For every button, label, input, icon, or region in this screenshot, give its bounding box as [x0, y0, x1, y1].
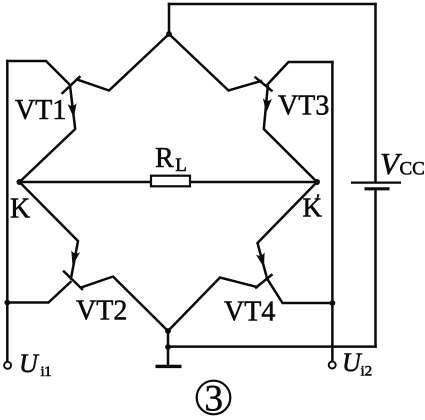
wire bottom return to ground node [168, 345, 376, 348]
battery VCC long plate [351, 182, 401, 184]
wire top supply rail [169, 3, 376, 6]
terminal U_i1 [4, 362, 11, 369]
transistor VT3 emitter arrow [263, 98, 272, 113]
node K [17, 179, 23, 185]
node bridge bottom [165, 328, 171, 334]
node left rail junction [4, 300, 10, 306]
svg-text:3: 3 [205, 379, 224, 420]
wire inner right rail to Ui2 [331, 62, 334, 361]
wire VT2 base lead [81, 277, 168, 332]
transistor VT1 collector lead [7, 61, 70, 85]
transistor VT2 emitter lead [20, 182, 79, 279]
svg-text:i1: i1 [41, 364, 52, 380]
svg-text:K: K [10, 194, 30, 225]
node top junction [166, 31, 172, 37]
transistor VT4 base bar [256, 275, 272, 288]
svg-text:i2: i2 [361, 364, 373, 380]
transistor VT1 emitter lead [20, 86, 76, 183]
transistor VT2 collector lead [7, 282, 70, 303]
wire VT4 base lead [168, 278, 257, 332]
wire RL to K' [190, 181, 317, 184]
wire VT3 base lead [169, 34, 261, 91]
svg-text:RL: RL [155, 143, 187, 176]
svg-text:U: U [19, 349, 40, 378]
figure number 3 circle [197, 381, 231, 415]
wire top node stem [168, 4, 171, 34]
battery VCC short plate [365, 187, 390, 190]
transistor VT4 collector lead [267, 279, 332, 304]
transistor VT4 emitter arrow [256, 252, 265, 267]
transistor VT3 base bar [256, 78, 272, 91]
wire K to RL [20, 181, 152, 184]
ground bar [156, 365, 182, 368]
wire bridge bottom node stem [167, 331, 170, 347]
transistor VT2 emitter arrow [71, 250, 80, 265]
transistor VT1 emitter arrow [68, 103, 77, 118]
wire VT1 base lead [77, 34, 169, 91]
svg-text:VT3: VT3 [278, 91, 329, 122]
ground stem [167, 347, 170, 365]
svg-text:VT4: VT4 [224, 297, 275, 328]
transistor VT2 base bar [64, 272, 82, 290]
node K' [314, 179, 320, 185]
transistor VT4 emitter lead [258, 182, 318, 278]
wire right rail from battery down [374, 191, 377, 347]
transistor VT3 emitter lead [264, 86, 317, 182]
wire right rail from top to battery [374, 4, 377, 181]
svg-text:VT1: VT1 [15, 95, 66, 126]
wire left rail [6, 61, 9, 362]
node VT4 collector junction [330, 300, 336, 306]
transistor VT3 collector lead [267, 62, 332, 85]
transistor VT1 base bar [63, 77, 80, 93]
svg-text:VT2: VT2 [76, 296, 127, 327]
resistor RL body [151, 176, 190, 187]
node ground junction [165, 344, 171, 350]
svg-text:′: ′ [316, 191, 320, 212]
terminal U_i2 [329, 362, 336, 369]
svg-text:CC: CC [400, 159, 425, 180]
